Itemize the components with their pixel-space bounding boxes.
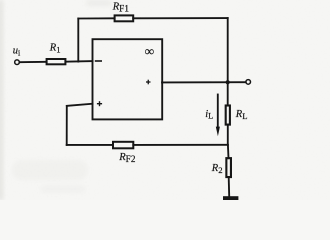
junction node at output [226, 80, 230, 84]
wire noninverting vertical down [66, 106, 68, 145]
svg-text:R1: R1 [49, 42, 61, 54]
svg-text:R2: R2 [211, 163, 223, 175]
current iL arrow line [217, 95, 219, 129]
svg-text:RF1: RF1 [112, 2, 130, 14]
resistor RL [226, 106, 230, 125]
op-amp noninverting plus sign [97, 101, 102, 106]
wire R2 to ground [228, 177, 231, 196]
svg-text:iL: iL [205, 109, 213, 121]
op-amp output plus sign [146, 80, 151, 85]
resistor RF1 [115, 15, 134, 21]
wire right feedback vertical down to output node [227, 18, 229, 82]
wire op-amp output [162, 81, 246, 83]
wire input to R1 [20, 61, 47, 63]
wire RF2 to right branch node [133, 144, 227, 146]
svg-text:∞: ∞ [145, 44, 154, 59]
wire lower node down to R2 [227, 145, 230, 158]
wire RL to lower node [227, 125, 229, 145]
svg-text:RL: RL [235, 109, 248, 121]
wire output node down to RL [227, 82, 229, 105]
op-amp U1 body [93, 39, 163, 119]
current iL arrowhead [216, 127, 220, 137]
wire op-amp noninverting input left [67, 104, 93, 106]
wire R1 to op-amp inverting input [66, 60, 93, 63]
ground [223, 196, 238, 200]
wire RF1 to right corner [133, 17, 228, 19]
wire feedback vertical up from input node [77, 19, 79, 62]
resistor R2 [226, 158, 231, 177]
wire bottom to RF2 [67, 144, 113, 146]
output terminal [246, 80, 251, 85]
op-amp inverting input minus sign [96, 60, 102, 62]
resistor R1 [47, 59, 66, 64]
input terminal ui [15, 60, 20, 65]
svg-text:RF2: RF2 [118, 152, 136, 164]
resistor RF2 [113, 142, 133, 149]
wire top left to RF1 [78, 17, 114, 19]
